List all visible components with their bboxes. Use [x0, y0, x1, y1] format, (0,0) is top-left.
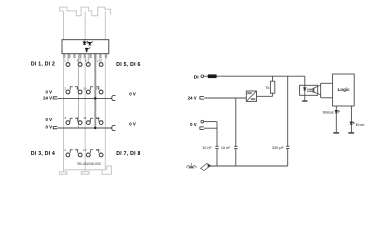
svg-text:1: 1: [64, 58, 66, 62]
svg-text:24 V: 24 V: [43, 96, 52, 101]
svg-text:Tk: Tk: [265, 86, 269, 90]
svg-text:0 V: 0 V: [129, 121, 136, 126]
svg-text:6: 6: [77, 86, 79, 90]
svg-text:0 V: 0 V: [190, 122, 197, 127]
svg-text:5: 5: [77, 58, 79, 62]
svg-text:0 V: 0 V: [46, 124, 53, 129]
svg-text:10 nF: 10 nF: [221, 146, 231, 150]
svg-text:2: 2: [64, 86, 66, 90]
svg-text:DI 3, DI 4: DI 3, DI 4: [31, 151, 55, 157]
svg-text:16: 16: [96, 148, 100, 152]
svg-text:12: 12: [83, 148, 87, 152]
svg-text:14: 14: [96, 86, 100, 90]
svg-text:10: 10: [83, 86, 87, 90]
svg-text:8: 8: [77, 148, 79, 152]
svg-text:Logic: Logic: [338, 87, 350, 92]
svg-text:3: 3: [64, 116, 66, 120]
svg-text:Error: Error: [356, 122, 366, 127]
svg-text:13: 13: [97, 58, 101, 62]
svg-text:10 nF: 10 nF: [202, 146, 212, 150]
svg-text:DI 1, DI 2: DI 1, DI 2: [31, 61, 55, 67]
svg-text:330 pF: 330 pF: [272, 146, 285, 150]
svg-text:750-431/040-000: 750-431/040-000: [77, 162, 101, 166]
svg-text:15: 15: [96, 116, 100, 120]
svg-text:DI 5, DI 6: DI 5, DI 6: [116, 62, 140, 68]
svg-text:0 V: 0 V: [46, 89, 53, 94]
svg-text:0 V: 0 V: [46, 117, 53, 122]
svg-text:DI: DI: [194, 74, 199, 80]
svg-text:7: 7: [77, 116, 79, 120]
svg-text:11: 11: [83, 116, 86, 120]
svg-text:0 V: 0 V: [129, 92, 136, 97]
svg-text:4: 4: [64, 148, 66, 152]
svg-text:Status: Status: [322, 110, 333, 115]
svg-text:9: 9: [85, 58, 87, 62]
svg-text:24 V: 24 V: [188, 96, 197, 101]
svg-text:DI 7, DI 8: DI 7, DI 8: [116, 151, 140, 157]
